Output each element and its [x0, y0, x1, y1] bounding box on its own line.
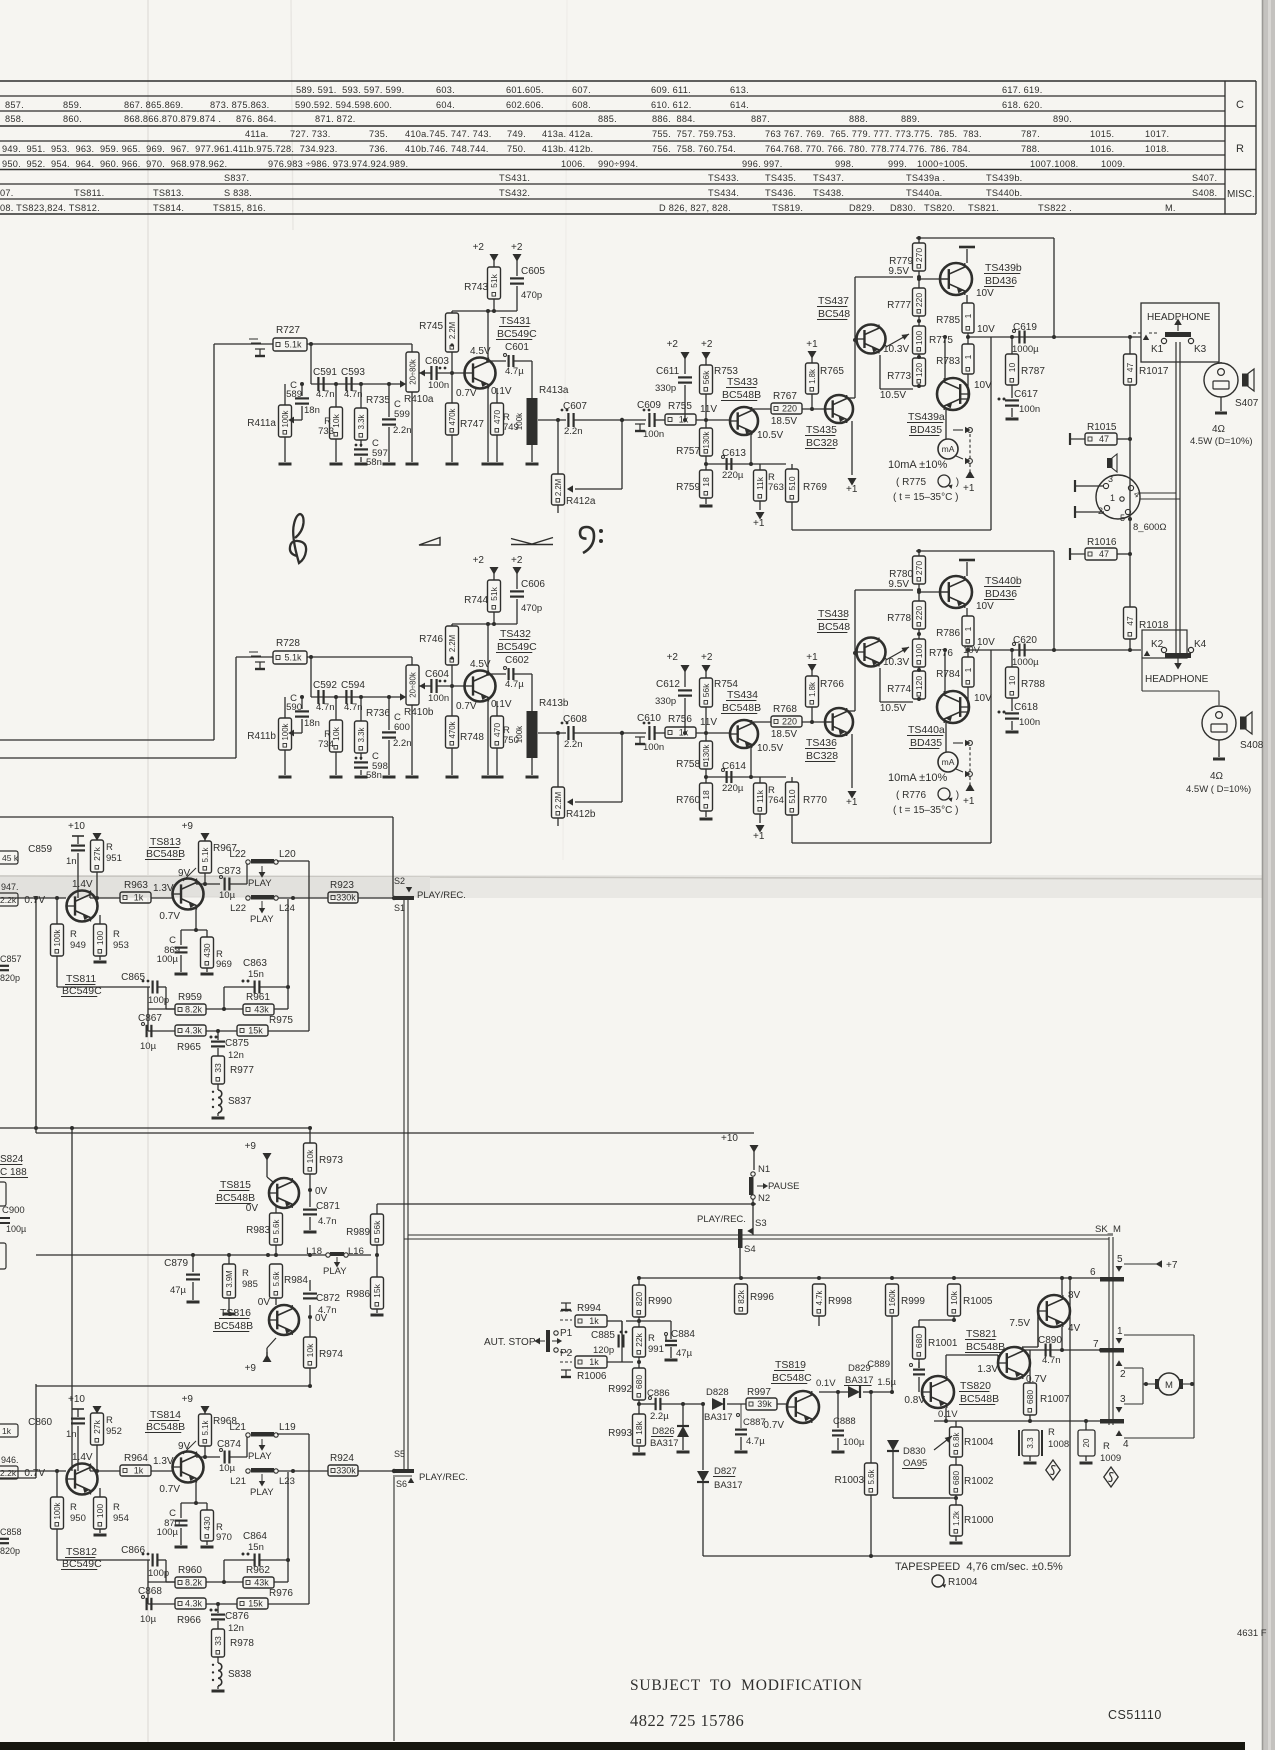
svg-text:990÷994.: 990÷994. [598, 159, 638, 169]
svg-text:3.3k: 3.3k [357, 415, 366, 430]
svg-text:100n: 100n [428, 380, 449, 391]
svg-text:BA317: BA317 [845, 1375, 874, 1386]
svg-text:+1: +1 [753, 518, 765, 529]
svg-text:950: 950 [70, 1513, 86, 1524]
svg-text:510: 510 [787, 789, 797, 803]
svg-text:C613: C613 [722, 448, 746, 459]
svg-text:K1: K1 [1151, 344, 1164, 355]
svg-text:R965: R965 [177, 1042, 201, 1053]
svg-text:R411b: R411b [247, 731, 276, 742]
svg-text:11V: 11V [700, 717, 717, 728]
svg-text:R960: R960 [178, 1565, 202, 1576]
svg-text:470p: 470p [521, 603, 542, 614]
svg-text:1007.1008.: 1007.1008. [1030, 159, 1078, 169]
svg-text:15k: 15k [372, 1283, 382, 1297]
svg-text:R747: R747 [460, 419, 484, 430]
svg-text:+1: +1 [806, 339, 818, 350]
svg-text:10µ: 10µ [140, 1041, 157, 1052]
svg-text:+9: +9 [182, 821, 194, 832]
svg-text:413a. 412a.: 413a. 412a. [542, 129, 593, 139]
svg-text:756. 758. 760.754.: 756. 758. 760.754. [652, 144, 736, 154]
svg-text:R758: R758 [676, 759, 700, 770]
svg-text:R962: R962 [246, 1565, 270, 1576]
svg-text:4: 4 [1123, 1439, 1129, 1450]
svg-text:K4: K4 [1194, 639, 1207, 650]
svg-text:680: 680 [951, 1471, 961, 1485]
svg-text:TS434: TS434 [727, 689, 758, 701]
svg-text:C617: C617 [1014, 389, 1038, 400]
svg-text:100n: 100n [1019, 404, 1040, 415]
svg-text:5.1k: 5.1k [284, 340, 302, 350]
svg-text:51k: 51k [489, 586, 499, 600]
svg-text:1.4V: 1.4V [72, 1452, 93, 1463]
svg-text:10V: 10V [976, 288, 994, 299]
svg-text:2.2M: 2.2M [448, 635, 457, 652]
svg-text:100k: 100k [281, 723, 290, 740]
svg-text:R767: R767 [773, 391, 797, 402]
svg-text:1: 1 [1110, 493, 1115, 503]
svg-text:C886: C886 [647, 1388, 670, 1399]
svg-text:R: R [242, 1268, 249, 1279]
svg-text:2.2µ: 2.2µ [650, 1411, 669, 1422]
svg-text:734: 734 [318, 739, 334, 750]
svg-text:1n: 1n [66, 1429, 77, 1440]
svg-text:873. 875.863.: 873. 875.863. [210, 100, 269, 110]
svg-text:07.: 07. [0, 188, 14, 198]
svg-text:R777: R777 [887, 300, 911, 311]
svg-text:S 838.: S 838. [224, 188, 252, 198]
svg-text:C607: C607 [563, 401, 587, 412]
svg-text:R: R [106, 842, 113, 853]
svg-text:PLAY: PLAY [250, 1487, 274, 1498]
svg-text:S824: S824 [0, 1154, 24, 1165]
svg-text:100µ: 100µ [157, 1527, 179, 1538]
svg-text:18: 18 [701, 790, 711, 800]
svg-text:8.2k: 8.2k [185, 1005, 203, 1015]
svg-text:9.5V: 9.5V [888, 266, 909, 277]
svg-text:410b.746. 748.744.: 410b.746. 748.744. [405, 144, 489, 154]
svg-text:C612: C612 [656, 679, 680, 690]
svg-text:8.2k: 8.2k [185, 1578, 203, 1588]
svg-text:L24: L24 [279, 903, 295, 914]
svg-text:+2: +2 [473, 555, 485, 566]
svg-text:2: 2 [1098, 506, 1103, 516]
svg-text:411a.: 411a. [245, 129, 269, 139]
svg-text:1017.: 1017. [1145, 129, 1169, 139]
svg-text:735.: 735. [369, 129, 388, 139]
svg-text:20: 20 [1082, 1438, 1091, 1447]
svg-text:4.3k: 4.3k [185, 1599, 203, 1609]
svg-text:2.2n: 2.2n [564, 426, 583, 437]
svg-text:R976: R976 [269, 1588, 293, 1599]
svg-text:10mA ±10%: 10mA ±10% [888, 459, 947, 471]
svg-text:BC548B: BC548B [146, 1421, 185, 1433]
svg-text:10µ: 10µ [219, 1463, 236, 1474]
svg-text:C863: C863 [243, 958, 267, 969]
svg-text:10mA ±10%: 10mA ±10% [888, 772, 947, 784]
svg-text:PLAY/REC.: PLAY/REC. [417, 890, 466, 901]
svg-text:100: 100 [914, 644, 924, 658]
svg-text:R998: R998 [828, 1296, 852, 1307]
svg-text:39k: 39k [757, 1399, 772, 1409]
svg-text:0.8V: 0.8V [904, 1395, 925, 1406]
svg-text:10.5V: 10.5V [757, 430, 783, 441]
svg-text:R990: R990 [648, 1296, 672, 1307]
svg-text:820p: 820p [0, 1546, 20, 1556]
svg-text:1k: 1k [589, 1357, 599, 1367]
svg-text:949: 949 [70, 940, 86, 951]
svg-text:S408: S408 [1240, 740, 1264, 751]
svg-text:991: 991 [648, 1344, 664, 1355]
svg-text:): ) [953, 477, 959, 488]
svg-text:C867: C867 [138, 1013, 162, 1024]
svg-text:18: 18 [701, 477, 711, 487]
svg-text:4.7µ: 4.7µ [505, 366, 524, 377]
svg-text:0.7V: 0.7V [763, 1420, 784, 1431]
svg-text:R744: R744 [464, 595, 488, 606]
svg-text:15n: 15n [248, 969, 264, 980]
svg-text:R776: R776 [929, 648, 953, 659]
svg-text:100µ: 100µ [843, 1437, 865, 1448]
svg-text:+1: +1 [846, 484, 858, 495]
svg-text:220: 220 [914, 606, 924, 620]
svg-text:56k: 56k [701, 683, 711, 697]
svg-text:L19: L19 [279, 1422, 296, 1433]
svg-text:976.983 ÷986. 973.974.924.989.: 976.983 ÷986. 973.974.924.989. [268, 159, 408, 169]
svg-text:788.: 788. [1021, 144, 1040, 154]
svg-text:950. 952. 954. 964. 960. 9: 950. 952. 954. 964. 960. 966. 970. 968.9… [2, 159, 227, 169]
svg-text:871. 872.: 871. 872. [315, 114, 356, 124]
svg-text:R984: R984 [284, 1275, 308, 1286]
svg-text:330p: 330p [655, 383, 676, 394]
svg-text:1.4V: 1.4V [72, 879, 93, 890]
svg-text:R759: R759 [676, 482, 700, 493]
svg-text:R: R [113, 1502, 120, 1513]
svg-text:1.5µ: 1.5µ [877, 1377, 896, 1388]
svg-text:4.5W (D=10%): 4.5W (D=10%) [1190, 436, 1253, 447]
svg-text:BC549C: BC549C [497, 328, 537, 340]
svg-text:510: 510 [787, 476, 797, 490]
svg-text:20÷80k: 20÷80k [409, 359, 418, 385]
svg-text:600: 600 [394, 722, 410, 733]
svg-text:R975: R975 [269, 1015, 293, 1026]
svg-text:589. 591. 593. 597. 599.: 589. 591. 593. 597. 599. [296, 85, 404, 95]
svg-text:+7: +7 [1166, 1260, 1178, 1271]
svg-text:0.1V: 0.1V [938, 1409, 958, 1420]
svg-text:C591: C591 [313, 367, 337, 378]
svg-text:876. 864.: 876. 864. [236, 114, 277, 124]
svg-text:82k: 82k [736, 1289, 746, 1303]
svg-text:MISC.: MISC. [1227, 189, 1255, 200]
svg-text:+2: +2 [511, 555, 523, 566]
svg-text:100k: 100k [281, 410, 290, 427]
svg-text:BC548: BC548 [818, 308, 850, 320]
svg-text:C857: C857 [0, 954, 22, 964]
svg-text:0.7V: 0.7V [159, 1484, 180, 1495]
svg-text:3.3k: 3.3k [357, 728, 366, 743]
svg-text:4Ω: 4Ω [1212, 424, 1226, 435]
svg-text:4.7n: 4.7n [316, 702, 335, 713]
svg-text:220: 220 [914, 293, 924, 307]
svg-text:470k: 470k [448, 408, 457, 425]
svg-text:L20: L20 [279, 849, 296, 860]
svg-text:1000µ: 1000µ [1012, 344, 1039, 355]
svg-text:27k: 27k [92, 846, 102, 860]
svg-text:TS813: TS813 [150, 836, 181, 848]
svg-text:749.: 749. [507, 129, 526, 139]
svg-text:PLAY: PLAY [323, 1266, 347, 1277]
svg-text:R1003: R1003 [835, 1475, 865, 1486]
svg-text:D830.: D830. [890, 203, 916, 213]
svg-text:R755: R755 [668, 401, 692, 412]
svg-text:S407.: S407. [1192, 173, 1217, 183]
svg-text:120: 120 [914, 676, 924, 690]
svg-text:4.7n: 4.7n [316, 389, 335, 400]
svg-text:47: 47 [1125, 363, 1135, 373]
svg-text:0.7V: 0.7V [456, 388, 477, 399]
svg-text:C608: C608 [563, 714, 587, 725]
svg-text:58n: 58n [366, 457, 382, 468]
svg-text:R766: R766 [820, 679, 844, 690]
svg-text:1018.: 1018. [1145, 144, 1169, 154]
svg-text:270: 270 [914, 561, 924, 575]
svg-text:TS436.: TS436. [765, 188, 796, 198]
svg-text:47µ: 47µ [170, 1285, 187, 1296]
svg-text:15k: 15k [248, 1026, 263, 1036]
svg-text:100k: 100k [53, 929, 62, 946]
svg-text:4.3k: 4.3k [185, 1026, 203, 1036]
svg-text:15k: 15k [248, 1599, 263, 1609]
svg-text:BC328: BC328 [806, 750, 838, 762]
svg-text:( R776: ( R776 [896, 790, 929, 801]
svg-text:18n: 18n [304, 718, 320, 729]
svg-text:787.: 787. [1021, 129, 1040, 139]
svg-text:+2: +2 [473, 242, 485, 253]
svg-text:100n: 100n [643, 429, 664, 440]
svg-text:C603: C603 [425, 356, 449, 367]
svg-text:18n: 18n [304, 405, 320, 416]
svg-text:R748: R748 [460, 732, 484, 743]
svg-text:1009: 1009 [1100, 1453, 1121, 1464]
svg-text:BC548B: BC548B [966, 1341, 1005, 1353]
svg-text:S408.: S408. [1192, 188, 1217, 198]
svg-text:1: 1 [963, 354, 973, 359]
svg-text:TS440b: TS440b [985, 575, 1022, 587]
svg-text:L21: L21 [230, 1476, 246, 1487]
svg-text:+1: +1 [753, 831, 765, 842]
svg-text:1.3V: 1.3V [153, 883, 174, 894]
svg-text:R973: R973 [319, 1155, 343, 1166]
svg-text:C860: C860 [28, 1417, 52, 1428]
svg-text:4631 F: 4631 F [1237, 1628, 1267, 1639]
svg-text:2.2n: 2.2n [564, 739, 583, 750]
svg-text:614.: 614. [730, 100, 749, 110]
svg-text:10V: 10V [963, 645, 981, 656]
svg-text:100µ: 100µ [6, 1224, 26, 1234]
svg-text:R728: R728 [276, 638, 300, 649]
svg-text:4.7n: 4.7n [1042, 1355, 1061, 1366]
svg-text:889.: 889. [901, 114, 920, 124]
svg-text:BC548B: BC548B [214, 1320, 253, 1332]
svg-text:TS820: TS820 [960, 1380, 991, 1392]
svg-text:C884: C884 [671, 1329, 695, 1340]
svg-text:220µ: 220µ [722, 470, 744, 481]
svg-text:R983: R983 [246, 1225, 270, 1236]
svg-text:TS435.: TS435. [765, 173, 796, 183]
svg-text:R: R [113, 929, 120, 940]
svg-text:+9: +9 [182, 1394, 194, 1405]
svg-text:R413b: R413b [539, 698, 569, 709]
svg-text:TS431: TS431 [500, 315, 531, 327]
svg-text:BC548: BC548 [818, 621, 850, 633]
svg-text:607.: 607. [572, 85, 591, 95]
svg-text:R977: R977 [230, 1065, 254, 1076]
svg-text:599: 599 [394, 409, 410, 420]
svg-text:1: 1 [963, 626, 973, 631]
svg-text:R785: R785 [936, 315, 960, 326]
svg-text:TS440a: TS440a [908, 724, 945, 736]
svg-text:L23: L23 [279, 1476, 295, 1487]
svg-text:100k: 100k [515, 412, 524, 430]
svg-text:608.: 608. [572, 100, 591, 110]
svg-text:08. TS823,824. TS812.: 08. TS823,824. TS812. [0, 203, 100, 213]
svg-text:1008: 1008 [1048, 1439, 1069, 1450]
svg-text:TS819.: TS819. [772, 203, 803, 213]
svg-text:601.605.: 601.605. [506, 85, 544, 95]
svg-text:5.1k: 5.1k [201, 848, 210, 863]
svg-text:R786: R786 [936, 628, 960, 639]
svg-text:2.2M: 2.2M [554, 792, 563, 809]
svg-text:D828: D828 [706, 1387, 729, 1398]
svg-text:733: 733 [318, 426, 334, 437]
svg-text:C889: C889 [867, 1359, 890, 1370]
svg-text:2.2k: 2.2k [0, 895, 17, 905]
svg-text:BC548B: BC548B [960, 1393, 999, 1405]
svg-text:2.2M: 2.2M [448, 322, 457, 339]
svg-text:764.768. 770. 766. 780. 778.77: 764.768. 770. 766. 780. 778.774.776. 786… [765, 144, 971, 154]
svg-text:100n: 100n [1019, 717, 1040, 728]
svg-text:TS816: TS816 [220, 1307, 251, 1319]
svg-text:886. 884.: 886. 884. [652, 114, 695, 124]
svg-text:R413a: R413a [539, 385, 569, 396]
svg-text:C868: C868 [138, 1586, 162, 1597]
svg-text:S3: S3 [755, 1218, 767, 1229]
svg-text:C619: C619 [1013, 322, 1037, 333]
svg-text:BC549C: BC549C [497, 641, 537, 653]
svg-text:R974: R974 [319, 1349, 343, 1360]
svg-text:1k: 1k [2, 1426, 12, 1436]
svg-text:TS819: TS819 [775, 1359, 806, 1371]
svg-text:R787: R787 [1021, 366, 1045, 377]
svg-text:mA: mA [942, 757, 955, 767]
svg-text:TS433.: TS433. [708, 173, 739, 183]
svg-text:R959: R959 [178, 992, 202, 1003]
svg-text:R989: R989 [346, 1227, 370, 1238]
svg-text:TS821: TS821 [966, 1328, 997, 1340]
svg-text:R735: R735 [366, 395, 390, 406]
svg-text:+1: +1 [806, 652, 818, 663]
svg-text:R768: R768 [773, 704, 797, 715]
svg-text:18.5V: 18.5V [771, 416, 797, 427]
svg-text:+2: +2 [701, 339, 713, 350]
svg-text:1.3V: 1.3V [153, 1456, 174, 1467]
svg-text:TS438.: TS438. [813, 188, 844, 198]
svg-text:BD435: BD435 [910, 424, 942, 436]
svg-text:4.7µ: 4.7µ [746, 1436, 765, 1447]
svg-text:BA317: BA317 [650, 1438, 679, 1449]
svg-text:R: R [1236, 143, 1244, 155]
svg-text:5.6k: 5.6k [272, 1272, 281, 1287]
svg-text:R999: R999 [901, 1296, 925, 1307]
svg-text:130k: 130k [702, 431, 711, 448]
svg-text:R1016: R1016 [1087, 537, 1117, 548]
svg-text:P2: P2 [560, 1348, 573, 1359]
svg-text:1016.: 1016. [1090, 144, 1114, 154]
svg-text:TS812: TS812 [66, 1546, 97, 1558]
svg-text:4.7n: 4.7n [318, 1305, 337, 1316]
svg-text:470: 470 [492, 723, 502, 737]
svg-text:P1: P1 [560, 1328, 573, 1339]
svg-text:7.5V: 7.5V [1009, 1318, 1030, 1329]
svg-text:10.3V: 10.3V [883, 657, 909, 668]
svg-text:R410a: R410a [404, 394, 434, 405]
svg-text:+1: +1 [846, 797, 858, 808]
svg-text:0.1V: 0.1V [491, 699, 512, 710]
svg-text:R: R [648, 1333, 655, 1344]
svg-text:100k: 100k [515, 725, 524, 743]
svg-text:S838: S838 [228, 1669, 252, 1680]
svg-text:( R775: ( R775 [896, 477, 929, 488]
svg-text:2: 2 [1120, 1369, 1126, 1380]
svg-text:8_600Ω: 8_600Ω [1133, 522, 1167, 533]
svg-text:TS437.: TS437. [813, 173, 844, 183]
svg-text:+2: +2 [667, 652, 679, 663]
svg-text:10V: 10V [976, 601, 994, 612]
svg-text:885.: 885. [598, 114, 617, 124]
svg-text:C872: C872 [316, 1293, 340, 1304]
svg-text:680: 680 [914, 1334, 924, 1348]
svg-text:+2: +2 [701, 652, 713, 663]
svg-text:47µ: 47µ [676, 1348, 693, 1359]
svg-text:9.5V: 9.5V [888, 579, 909, 590]
svg-text:C874: C874 [217, 1439, 241, 1450]
svg-text:R765: R765 [820, 366, 844, 377]
svg-text:R775: R775 [929, 335, 953, 346]
svg-text:R: R [106, 1415, 113, 1426]
svg-text:TS439a: TS439a [908, 411, 945, 423]
svg-text:TS822 .: TS822 . [1038, 203, 1072, 213]
svg-text:43k: 43k [254, 1005, 269, 1015]
svg-text:S2: S2 [394, 876, 405, 886]
svg-text:20÷80k: 20÷80k [409, 672, 418, 698]
svg-text:860.: 860. [63, 114, 82, 124]
svg-text:D826: D826 [652, 1426, 675, 1437]
svg-text:9V: 9V [178, 1441, 191, 1452]
svg-text:TS440a.: TS440a. [906, 188, 942, 198]
svg-text:R746: R746 [419, 634, 443, 645]
svg-text:11V: 11V [700, 404, 717, 415]
svg-text:R1004: R1004 [964, 1437, 994, 1448]
svg-text:4.7n: 4.7n [344, 389, 363, 400]
svg-text:R923: R923 [330, 880, 354, 891]
svg-text:5.1k: 5.1k [201, 1421, 210, 1436]
svg-text:100: 100 [914, 331, 924, 345]
svg-text:15n: 15n [248, 1542, 264, 1553]
svg-text:4.7k: 4.7k [815, 1291, 824, 1306]
svg-text:0.1V: 0.1V [491, 386, 512, 397]
svg-text:TS820.: TS820. [924, 203, 955, 213]
svg-text:TS814: TS814 [150, 1409, 181, 1421]
